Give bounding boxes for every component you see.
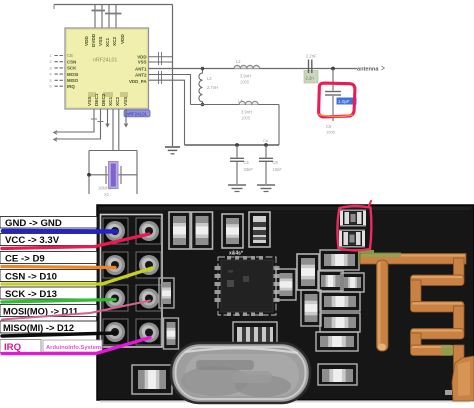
label box CE xyxy=(0,252,97,265)
capacitor C5 xyxy=(230,145,244,184)
svg-text:IRQ: IRQ xyxy=(4,342,22,353)
wire matching line B xyxy=(191,104,280,106)
svg-text:1005: 1005 xyxy=(326,130,336,135)
C9 value (blue highlight) xyxy=(337,98,357,105)
ground symbol main xyxy=(165,147,180,154)
wire SCK green xyxy=(2,300,115,303)
SMD cap top row 3 xyxy=(222,214,243,248)
SMD resistor top row 4 xyxy=(249,212,270,247)
svg-text:MOSI: MOSI xyxy=(67,72,78,77)
wire CE orange xyxy=(2,267,115,268)
pin P3 CE xyxy=(103,252,128,278)
wire VDD stub to rail xyxy=(149,56,173,58)
label box GND xyxy=(0,217,97,230)
SMD horizontal H7 bottom right of crystal xyxy=(318,364,357,385)
SMD cap top row 2 xyxy=(192,212,213,249)
antenna trace top bar xyxy=(360,254,466,265)
svg-text:2: 2 xyxy=(50,60,52,64)
svg-text:CE: CE xyxy=(67,53,73,58)
SMD horizontal H1 xyxy=(320,250,359,270)
antenna green tint top xyxy=(361,253,401,258)
pin header silkscreen border xyxy=(101,215,163,348)
node junction C6 xyxy=(264,143,268,147)
IC U2 leads left xyxy=(215,266,222,302)
SMD vertical V2 xyxy=(276,269,296,300)
wire top supply bus xyxy=(54,4,173,6)
IC U2 leads bottom xyxy=(227,309,263,316)
svg-text:VDD: VDD xyxy=(120,33,125,44)
SMD bottom left of crystal xyxy=(132,365,172,394)
wire MOSI pink xyxy=(2,301,150,320)
SMD horizontal H6 xyxy=(316,332,358,351)
svg-text:VDD_PA: VDD_PA xyxy=(129,79,147,84)
U1 right pin stubs xyxy=(149,57,173,62)
svg-text:GND -> GND: GND -> GND xyxy=(5,218,62,229)
capacitor C9 inside marker xyxy=(325,69,341,122)
tick crosses on pin wires xyxy=(91,119,104,122)
IC U2 leads right xyxy=(273,266,280,302)
svg-text:3: 3 xyxy=(50,66,52,70)
IC U2 body xyxy=(221,260,273,312)
wire MISO black xyxy=(2,333,116,336)
watermark box xyxy=(43,340,104,352)
net tick marks on supply wires xyxy=(92,11,122,14)
silkscreen dot bottom right xyxy=(445,390,452,395)
svg-text:X1: X1 xyxy=(104,192,110,197)
svg-text:SCK: SCK xyxy=(67,66,77,71)
svg-text:XC2: XC2 xyxy=(115,96,120,106)
wire VDD rail to ground xyxy=(172,5,174,147)
svg-text:XC2: XC2 xyxy=(112,36,117,46)
wire ANT1 main RF line xyxy=(149,68,358,70)
svg-text:33nF: 33nF xyxy=(244,167,254,172)
svg-text:2.2nF: 2.2nF xyxy=(306,54,317,59)
op-amp U1 nRF24L01 chip body xyxy=(65,28,149,109)
antenna meander left connector 2 xyxy=(411,333,422,348)
label box MOSI xyxy=(0,305,97,317)
antenna meander left connector 1 xyxy=(411,280,422,304)
U1 top pin labels xyxy=(84,33,125,47)
wire CSN yellow xyxy=(2,268,152,284)
capacitor C7 (green highlighted) xyxy=(304,60,318,84)
svg-text:1005: 1005 xyxy=(241,116,251,121)
label box VCC xyxy=(0,234,97,247)
crystal X1 body (purple highlighted) xyxy=(109,162,119,189)
svg-text:10nF: 10nF xyxy=(273,167,283,172)
U1 left pin stubs xyxy=(55,56,66,87)
svg-text:SCK -> D13: SCK -> D13 xyxy=(5,289,57,300)
crystal X1 plates xyxy=(106,166,121,184)
SMD horizontal H4 xyxy=(320,292,360,311)
svg-text:C9: C9 xyxy=(326,124,332,129)
wire chip top pin 1 xyxy=(94,5,96,29)
SMD horizontal H2 xyxy=(318,271,343,291)
svg-text:3.9nH: 3.9nH xyxy=(240,74,251,79)
svg-text:VCC -> 3.3V: VCC -> 3.3V xyxy=(5,235,60,246)
node junction crystal left xyxy=(87,173,91,177)
node junction C5 xyxy=(235,143,239,147)
svg-text:ArduinoInfo.Systems: ArduinoInfo.Systems xyxy=(46,345,104,351)
node junction antenna xyxy=(331,67,335,71)
IC U2 leads top xyxy=(227,256,263,263)
node junction L3 top xyxy=(201,67,205,71)
svg-text:DVDD: DVDD xyxy=(91,33,96,47)
svg-text:XC1: XC1 xyxy=(108,96,113,106)
U1 value tag (blue highlight) xyxy=(124,110,150,117)
svg-text:nRF24L01: nRF24L01 xyxy=(93,58,117,64)
wire ANT2 stub xyxy=(149,75,191,105)
wire GND blue xyxy=(3,229,116,234)
wire chip bottom pin D short xyxy=(125,109,127,126)
wire VSS return stub xyxy=(149,80,185,145)
svg-text:C6: C6 xyxy=(273,160,279,165)
svg-text:VSS: VSS xyxy=(138,60,147,65)
antenna corner highlight xyxy=(458,361,470,396)
antenna corner pour xyxy=(452,356,474,401)
arrow end D xyxy=(124,124,127,127)
svg-text:2.7nH: 2.7nH xyxy=(207,85,218,90)
inductor L2 on RF line xyxy=(234,65,260,68)
svg-text:XC1: XC1 xyxy=(105,37,110,47)
wire chip bottom pin A xyxy=(54,109,94,132)
pin P7 MISO xyxy=(103,319,128,345)
antenna feed pad (green) xyxy=(358,250,374,263)
antenna meander right vertical 1 xyxy=(454,258,465,282)
svg-text:L3: L3 xyxy=(207,76,212,81)
SMD horizontal H5 xyxy=(320,313,360,332)
svg-text:MISO: MISO xyxy=(67,78,79,83)
svg-text:1005: 1005 xyxy=(240,80,250,85)
svg-text:CSN -> D10: CSN -> D10 xyxy=(5,271,57,282)
svg-text:ANT2: ANT2 xyxy=(135,72,147,77)
antenna left stub xyxy=(377,260,389,351)
pin P2 VCC xyxy=(136,218,161,244)
svg-text:5: 5 xyxy=(50,79,52,83)
label box SCK xyxy=(0,287,97,300)
svg-text:2.2n: 2.2n xyxy=(306,76,315,81)
wire chip bottom pin C short xyxy=(107,109,109,126)
pin P4 CSN xyxy=(136,252,161,278)
svg-text:C6: C6 xyxy=(263,138,269,143)
SMD striped above crystal xyxy=(233,322,277,348)
crystal Y1 metal can xyxy=(171,343,310,403)
wire bottom return xyxy=(185,144,280,146)
left pin number marks xyxy=(50,54,52,89)
pin P1 GND xyxy=(103,218,128,244)
antenna meander bar 2 xyxy=(411,275,465,286)
svg-text:4: 4 xyxy=(50,73,52,77)
SMD cap top row 1 xyxy=(169,212,190,249)
coupling tick bars lower xyxy=(159,71,162,84)
U1 bottom pad marks xyxy=(88,92,128,97)
svg-text:16MHz: 16MHz xyxy=(98,186,111,191)
svg-text:VSS: VSS xyxy=(123,97,128,106)
svg-text:VSS: VSS xyxy=(87,97,92,106)
svg-text:1.0pF: 1.0pF xyxy=(338,99,350,104)
pin P6 MOSI xyxy=(136,285,161,311)
arrow end A xyxy=(54,131,57,134)
svg-text:1: 1 xyxy=(50,54,52,58)
svg-text:L2: L2 xyxy=(236,59,241,64)
svg-text:antenna: antenna xyxy=(357,67,379,73)
SMD small left of chip xyxy=(159,278,174,308)
wire bus left stub xyxy=(53,5,55,10)
antenna meander bar 5 xyxy=(411,345,454,356)
arrow end B xyxy=(54,138,57,141)
SMD cap C9a inside PCB marker xyxy=(340,210,366,227)
U1 left pin labels xyxy=(67,53,79,89)
crystal circuit left wire xyxy=(88,151,90,195)
pin P5 SCK xyxy=(103,285,128,311)
antenna meander bar 3 xyxy=(411,302,465,313)
svg-text:x&4s*: x&4s* xyxy=(229,251,243,257)
SMD vertical V3 xyxy=(301,290,321,326)
PCB board xyxy=(97,205,474,400)
inductor L4 on line B xyxy=(239,101,258,104)
svg-text:DEC1: DEC1 xyxy=(94,93,99,106)
wire chip top pin 3 xyxy=(108,5,110,29)
label box IRQ xyxy=(0,340,41,353)
wire XC1 to crystal xyxy=(112,109,114,151)
svg-text:L4: L4 xyxy=(238,99,243,104)
svg-text:3.9nH: 3.9nH xyxy=(241,110,252,115)
antenna tick xyxy=(382,66,385,70)
antenna final vertical to corner xyxy=(454,345,465,370)
svg-text:CE -> D9: CE -> D9 xyxy=(5,253,45,264)
wire chip top pin 4 xyxy=(115,5,117,29)
wire line B down right xyxy=(278,105,280,146)
node junction L3 bottom xyxy=(201,103,205,107)
ground under C5 xyxy=(228,185,246,192)
crystal circuit middle wire xyxy=(89,174,137,176)
capacitor C6 xyxy=(259,145,273,184)
svg-text:nRF24L01: nRF24L01 xyxy=(127,111,148,116)
red marker box on PCB xyxy=(337,201,371,250)
crystal circuit top wire xyxy=(89,150,137,152)
antenna meander bar 4 xyxy=(411,329,465,340)
SMD vertical V1 xyxy=(297,254,319,290)
svg-text:IRQ: IRQ xyxy=(67,84,75,89)
IC U2 silkscreen xyxy=(218,257,276,315)
red marker box (schematic) xyxy=(318,83,355,117)
wire chip top pin 2 xyxy=(101,5,103,29)
svg-text:ANT1: ANT1 xyxy=(135,67,147,72)
board bottom shadow xyxy=(100,400,470,403)
coupling tick bars upper xyxy=(159,52,162,65)
antenna green tint bar5 end xyxy=(441,345,454,356)
wire chip bottom pin B xyxy=(54,109,101,139)
svg-text:DEC2: DEC2 xyxy=(101,93,106,106)
wire VSS stub to rail xyxy=(149,61,173,63)
antenna meander right connector 2 xyxy=(454,306,465,332)
wire XC2 to crystal xyxy=(118,109,120,151)
label box CSN xyxy=(0,270,97,283)
U1 right pin labels xyxy=(129,55,147,85)
svg-text:MISO(MI) -> D12: MISO(MI) -> D12 xyxy=(3,323,74,333)
wire VCC red xyxy=(2,234,149,249)
ground under C6 xyxy=(257,185,275,192)
svg-text:VDD: VDD xyxy=(84,35,89,46)
pin P8 IRQ xyxy=(136,319,161,345)
svg-text:CSN: CSN xyxy=(67,59,76,64)
svg-text:6: 6 xyxy=(50,85,52,89)
SMD small left lower xyxy=(164,318,179,349)
arrow end C xyxy=(106,124,109,127)
U1 bottom pin labels xyxy=(87,93,128,106)
svg-text:VSS: VSS xyxy=(98,37,103,46)
crystal circuit right wire xyxy=(136,151,138,195)
inductor L3 vertical xyxy=(199,70,203,104)
SMD cap C9b inside PCB marker xyxy=(339,230,365,248)
label box MISO xyxy=(0,321,97,333)
SMD horizontal H3 xyxy=(341,273,364,292)
wire IRQ magenta xyxy=(2,338,150,354)
svg-text:C5: C5 xyxy=(244,160,250,165)
